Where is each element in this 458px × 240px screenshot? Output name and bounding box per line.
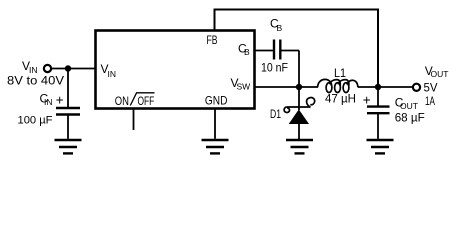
svg-text:B: B	[277, 23, 283, 33]
svg-text:+: +	[363, 93, 371, 108]
svg-text:SW: SW	[237, 82, 251, 92]
svg-text:L1: L1	[334, 66, 346, 80]
svg-text:5V: 5V	[424, 81, 438, 95]
svg-text:68 µF: 68 µF	[395, 111, 425, 125]
svg-text:OUT: OUT	[431, 69, 449, 79]
svg-text:100 µF: 100 µF	[18, 115, 53, 127]
svg-text:FB: FB	[207, 33, 218, 47]
svg-text:10 nF: 10 nF	[261, 61, 288, 75]
svg-text:+: +	[56, 93, 64, 108]
svg-text:8V to 40V: 8V to 40V	[7, 74, 64, 88]
svg-text:OFF: OFF	[138, 94, 155, 108]
svg-text:D1: D1	[270, 107, 281, 121]
svg-text:IN: IN	[108, 69, 117, 79]
svg-text:1A: 1A	[425, 94, 435, 108]
svg-text:47 µH: 47 µH	[325, 92, 356, 106]
svg-text:ON: ON	[115, 94, 129, 108]
svg-text:B: B	[244, 47, 250, 57]
svg-text:IN: IN	[44, 97, 53, 107]
svg-text:GND: GND	[205, 94, 228, 108]
